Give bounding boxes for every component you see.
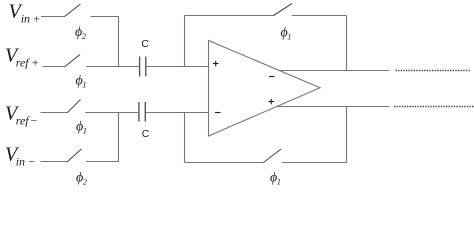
wire lower output dotted continuation <box>394 106 474 108</box>
op-amp U1 <box>209 41 321 137</box>
wire top feedback left vertical <box>184 16 186 67</box>
wire top feedback right vertical <box>346 16 348 71</box>
label phi1 of S2 <box>76 74 87 90</box>
wire top feedback horizontal left <box>185 15 275 17</box>
node label Vref+ <box>5 45 39 70</box>
node label Vin+ <box>9 1 41 26</box>
wire S4 to corner <box>86 161 119 163</box>
pin label + (non-inverting input) <box>213 61 219 67</box>
svg-text:ϕ2: ϕ2 <box>75 25 87 41</box>
svg-text:ϕ1: ϕ1 <box>281 26 292 42</box>
pin label - (inverting input) <box>215 112 221 114</box>
wire S3 to capacitor C2 <box>85 112 138 114</box>
value label C (bottom capacitor) <box>142 129 150 140</box>
svg-text:Vref +: Vref + <box>5 45 39 70</box>
pin label + (non-inverted output) <box>269 99 275 105</box>
node label Vref- <box>5 103 38 128</box>
wire corner up to Vref- row <box>118 113 120 162</box>
switch S6 phi1 (bottom feedback) <box>264 149 282 163</box>
wire S2 to capacitor C1 <box>86 66 139 68</box>
wire Vin+ to switch <box>41 16 65 18</box>
wire C1 to op-amp + input <box>147 66 209 68</box>
wire C2 to op-amp - input <box>146 112 209 114</box>
wire upper output dotted continuation <box>396 70 471 72</box>
label phi1 of S6 <box>270 171 281 187</box>
capacitor C1 <box>140 57 146 77</box>
svg-text:C: C <box>142 129 150 140</box>
svg-text:ϕ1: ϕ1 <box>76 74 87 90</box>
wire lower output <box>278 106 390 108</box>
svg-text:Vref −: Vref − <box>5 103 38 128</box>
switch S4 phi2 (Vin- input) <box>68 149 82 162</box>
wire bottom feedback left vertical <box>184 113 186 163</box>
switch S1 phi2 (Vin+ input) <box>65 4 81 17</box>
svg-text:ϕ1: ϕ1 <box>76 120 87 136</box>
wire bottom feedback horizontal right <box>282 162 347 164</box>
wire top feedback horizontal right <box>292 15 347 17</box>
label phi1 of S3 <box>76 120 87 136</box>
value label C (top capacitor) <box>141 39 149 50</box>
node label Vin- <box>5 144 36 169</box>
pin label - (inverted output) <box>269 76 275 78</box>
wire Vin- to switch <box>41 161 69 163</box>
switch S3 phi1 (Vref- input) <box>68 100 81 113</box>
wire Vref- to switch <box>41 112 69 114</box>
svg-text:C: C <box>141 39 149 50</box>
wire upper output <box>280 70 390 72</box>
wire corner down to Vref+ row <box>118 17 120 68</box>
svg-text:ϕ2: ϕ2 <box>76 171 88 186</box>
wire bottom feedback right vertical <box>346 107 348 163</box>
label phi2 of S1 <box>75 25 87 41</box>
wire Vref+ to switch <box>43 66 66 68</box>
svg-text:Vin −: Vin − <box>5 144 36 169</box>
switch S5 phi1 (top feedback) <box>274 4 293 16</box>
wire S1 to corner <box>91 16 120 18</box>
switch S2 phi1 (Vref+ input) <box>65 55 80 67</box>
capacitor C2 <box>139 102 145 122</box>
svg-text:Vin +: Vin + <box>9 1 41 26</box>
label phi2 of S4 <box>76 171 88 187</box>
wire bottom feedback horizontal left <box>185 162 265 164</box>
label phi1 of S5 <box>281 26 292 42</box>
svg-text:ϕ1: ϕ1 <box>270 171 281 186</box>
